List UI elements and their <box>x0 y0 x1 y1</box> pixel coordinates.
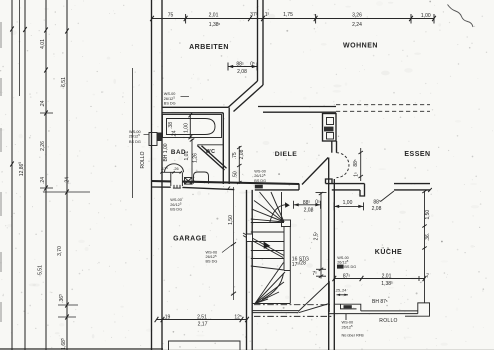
DIELE south-east diagonal wall <box>302 158 328 185</box>
svg-text:WC: WC <box>206 149 216 155</box>
diagonal wall ARBEITEN corner <box>228 81 258 108</box>
BAD door jambs <box>170 172 172 186</box>
svg-text:1,00: 1,00 <box>183 123 189 133</box>
svg-text:BS DG: BS DG <box>164 101 176 105</box>
svg-text:.24: .24 <box>171 130 177 137</box>
wall WC east (to DIELE) <box>222 113 224 184</box>
svg-text:6,51: 6,51 <box>61 77 67 87</box>
wall between ARBEITEN and BAD <box>162 106 228 108</box>
middle spine wall (DIELE south) <box>152 180 171 182</box>
svg-text:2,08: 2,08 <box>372 206 382 212</box>
scanner left edge marks <box>0 22 2 322</box>
scanner bottom edge line <box>0 348 163 350</box>
svg-text:.25,.24: .25,.24 <box>335 289 347 293</box>
stair cut line (double diagonal with arrow) <box>243 233 284 256</box>
leader to ARBEITEN wall text <box>181 96 190 98</box>
KUECHE interior dim line <box>334 278 424 280</box>
window roller box on west wall <box>149 133 157 146</box>
svg-text:1,26: 1,26 <box>193 153 199 163</box>
svg-text:BS DG: BS DG <box>129 140 141 144</box>
svg-text:2,01: 2,01 <box>209 12 219 18</box>
svg-text:.24: .24 <box>65 177 71 184</box>
svg-text:3,26: 3,26 <box>352 12 362 18</box>
lower winder treads (pivot bottom-left) <box>255 263 284 304</box>
svg-text:75: 75 <box>168 12 174 18</box>
svg-text:ROLLO: ROLLO <box>140 151 146 168</box>
WC diagonal wall <box>197 146 224 171</box>
svg-text:12,865: 12,865 <box>18 162 25 177</box>
left dimension chain vertical line 4 <box>45 0 47 350</box>
garage bottom dim <box>157 319 248 321</box>
WC toilet <box>194 172 209 184</box>
stair east inner rail line <box>281 192 283 220</box>
BAD door dim line <box>161 171 182 173</box>
svg-text:1,00: 1,00 <box>343 200 353 206</box>
svg-text:Nü über RFB: Nü über RFB <box>342 333 365 337</box>
bathtub inner <box>167 119 216 135</box>
outer west wall (double line) <box>151 0 153 350</box>
svg-text:1,50: 1,50 <box>425 210 431 220</box>
stair inner curve <box>262 273 284 300</box>
left dimension chain vertical line 1 <box>11 0 13 350</box>
svg-text:4,01: 4,01 <box>40 39 46 49</box>
ramp triangle at stair exit <box>298 282 329 312</box>
DIELE-ESSEN door swing arc <box>337 153 349 178</box>
wall between ARBEITEN and WOHNEN <box>257 0 259 81</box>
svg-text:BS DG: BS DG <box>344 265 356 269</box>
window leader line <box>345 314 347 320</box>
window extension line left of plan <box>132 68 134 198</box>
straight treads <box>251 222 284 224</box>
bathtub width dim line <box>189 114 191 139</box>
svg-text:.50: .50 <box>233 171 239 178</box>
landing door dim 88-5/2,08 <box>294 204 321 206</box>
svg-text:.38: .38 <box>168 122 174 129</box>
svg-text:BH 1,00: BH 1,00 <box>163 143 169 161</box>
left dimension chain vertical line 2 (short) <box>19 0 21 96</box>
stair newel bracket <box>282 220 291 227</box>
installation shaft <box>323 114 337 142</box>
garage east / stair west wall <box>246 190 248 350</box>
svg-text:2,08: 2,08 <box>304 207 314 213</box>
window pane mark <box>344 305 352 308</box>
svg-text:5,51: 5,51 <box>38 265 44 275</box>
bathtub outer <box>163 115 222 138</box>
svg-text:2,51: 2,51 <box>197 314 207 320</box>
svg-text:2,01: 2,01 <box>382 274 392 280</box>
BAD-WC partition line <box>197 144 223 146</box>
garage door rectangle <box>169 341 241 350</box>
stair east mid line <box>283 227 285 271</box>
svg-text:2,24: 2,24 <box>352 22 362 28</box>
open ceiling edge dashed (WOHNEN-ESSEN) <box>336 104 430 106</box>
svg-text:ROLLO: ROLLO <box>379 318 397 324</box>
tick at ESSEN wall end <box>428 188 432 192</box>
svg-text:BS DG: BS DG <box>170 207 182 211</box>
break squiggle top right <box>448 5 474 28</box>
garage interior dim line 1,50 <box>233 187 235 300</box>
walking line with arrow <box>270 205 286 223</box>
svg-text:3,70: 3,70 <box>57 246 63 256</box>
upper winder treads (pivot top-right) <box>271 192 284 222</box>
svg-text:.24: .24 <box>40 100 46 107</box>
wall stub above DIELE-ESSEN door <box>331 141 333 153</box>
small box with X <box>185 178 193 185</box>
chain tick extension lines <box>43 191 90 193</box>
ARBEITEN door dim <box>228 66 257 68</box>
svg-text:1,00: 1,00 <box>421 13 431 19</box>
svg-text:.75: .75 <box>232 152 238 159</box>
ESSEN door vertical dim 88-5 <box>360 148 362 181</box>
svg-text:BH 875: BH 875 <box>372 299 388 305</box>
svg-text:2,08: 2,08 <box>239 149 245 159</box>
spine wall right segments (KUECHE north) <box>326 183 365 185</box>
ESSEN dim 1,00 <box>334 205 364 207</box>
top dimension chain line <box>152 18 434 20</box>
stair east outer line <box>289 227 291 304</box>
svg-text:.24: .24 <box>40 177 46 184</box>
svg-text:1,75: 1,75 <box>283 12 293 18</box>
stair vertical dim 2,5 <box>320 193 322 279</box>
svg-text:ARBEITEN: ARBEITEN <box>189 44 229 51</box>
door frame stub at KUECHE door <box>360 184 365 196</box>
tick at garage wall top <box>227 187 230 191</box>
svg-text:.19: .19 <box>163 314 170 320</box>
wall stub below DIELE-ESSEN door <box>326 179 333 184</box>
left dimension chain vertical line 5 <box>66 0 68 350</box>
dash-dot lines below stairs <box>254 304 330 306</box>
WOHNEN south wall <box>258 106 336 108</box>
svg-text:2,26: 2,26 <box>40 141 46 151</box>
svg-text:2,08: 2,08 <box>237 69 247 75</box>
KUECHE south wall with window <box>334 304 361 313</box>
svg-text:WOHNEN: WOHNEN <box>343 43 378 50</box>
svg-text:KÜCHE: KÜCHE <box>375 247 402 256</box>
DIELE west dim line (door .75/2,08/.50) <box>238 146 240 184</box>
small box on stair west wall <box>247 234 253 242</box>
svg-text:BS DG: BS DG <box>254 179 266 183</box>
KUECHE west wall <box>328 158 330 350</box>
svg-text:BS DG: BS DG <box>206 260 218 264</box>
svg-text:1,50: 1,50 <box>228 215 234 225</box>
dark door sill block on spine wall <box>255 185 263 189</box>
svg-text:GARAGE: GARAGE <box>173 236 207 243</box>
BAD door threshold ticks <box>173 185 175 188</box>
svg-text:.26: .26 <box>173 167 178 171</box>
svg-text:BAD: BAD <box>171 149 186 156</box>
stair bottom edge lines <box>252 303 290 305</box>
svg-text:.36.: .36. <box>425 233 431 241</box>
KUECHE south-east corner pillar <box>418 303 430 316</box>
BAD door swing dome arc <box>165 164 184 173</box>
right side dim line (1,50/.36) <box>424 191 426 303</box>
svg-text:ESSEN: ESSEN <box>404 151 430 158</box>
WC dim line vertical <box>191 139 193 184</box>
svg-text:DIELE: DIELE <box>275 151 298 158</box>
svg-text:2,17: 2,17 <box>198 322 208 328</box>
chain tick marks <box>44 110 48 115</box>
svg-text:7: 7 <box>426 274 429 280</box>
left dimension chain vertical line 3 <box>24 0 26 350</box>
